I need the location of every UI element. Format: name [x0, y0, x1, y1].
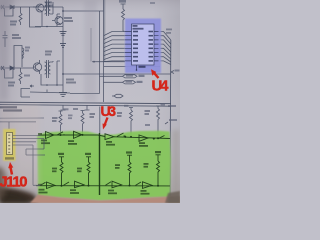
fan of wires to U4 left pins [104, 32, 125, 62]
row1 wire [38, 135, 170, 139]
triangle U3E [47, 182, 56, 189]
junction dots row1 [60, 134, 62, 136]
red arrow U3 [105, 118, 108, 125]
paper background [0, 0, 180, 203]
triangle U3C [105, 134, 114, 140]
purple highlight U4 [125, 19, 161, 74]
text mid right [45, 51, 52, 53]
diode D2 [10, 66, 14, 70]
switch [106, 182, 112, 185]
double horizontal lines [0, 102, 171, 103]
net oval 3 [112, 95, 114, 97]
right border vertical [169, 40, 172, 196]
bus through green [99, 133, 101, 195]
wire mid [35, 14, 63, 27]
box x14-22 [14, 46, 22, 68]
transistor Q3 [55, 17, 63, 25]
U4 pins and interior marks [125, 32, 159, 71]
wire y66.5 [104, 66, 160, 68]
cap C at x5 [3, 31, 8, 47]
stubs into green [61, 107, 159, 139]
top rail [0, 6, 63, 8]
triangle U3F [75, 181, 85, 187]
net oval 1 [123, 75, 138, 78]
junction dots row2 [61, 185, 63, 187]
transformer T1 [47, 0, 49, 16]
net label wires below U4 [100, 76, 123, 82]
row1 col4 [156, 106, 160, 109]
switch 1 [57, 132, 65, 135]
triangle U3D [139, 135, 148, 141]
text R6x [12, 34, 19, 36]
green highlight region U3 [37, 131, 171, 201]
row2 switch 1 [40, 182, 46, 185]
Q6 label [66, 79, 74, 81]
long wire y74 [63, 73, 171, 75]
switch 2 [117, 133, 126, 137]
switch 3 [158, 136, 165, 139]
green text labels [38, 133, 161, 195]
svg-text:U3: U3 [101, 103, 117, 119]
resistor R48 [19, 7, 22, 25]
warm tint lower-left paper [0, 104, 40, 188]
red arrow J110 [11, 168, 13, 175]
R texts row2 [52, 168, 57, 170]
green interior linework [36, 131, 170, 195]
row1 col2 [81, 111, 85, 114]
triangle U3B [74, 131, 83, 138]
wire y61.5 [92, 61, 125, 63]
row2 +5V col3 [127, 155, 132, 162]
U4 IC body [132, 24, 155, 65]
switch [64, 182, 70, 185]
small label left edge [38, 133, 42, 135]
triangle U3A [46, 132, 55, 139]
vertical line x63 [62, 7, 64, 92]
hanging stubs [61, 106, 90, 111]
transistor Q2 [33, 63, 41, 71]
note text rows [0, 106, 17, 108]
diode D1 [10, 5, 14, 9]
wire above connector [0, 121, 36, 123]
loop box B [5, 69, 14, 78]
value text R48 [10, 21, 17, 23]
row2 +5V col4 [156, 155, 161, 161]
triangle U3H [143, 182, 153, 189]
row2 +5V col1 [59, 157, 64, 162]
svg-text:J110: J110 [0, 175, 28, 191]
vertical buses [70, 11, 100, 94]
transistor Q1 [36, 4, 44, 12]
coil on box [22, 48, 24, 59]
lower rail stage B [0, 67, 33, 69]
row2 wire [36, 185, 170, 187]
rail to bus [63, 10, 104, 12]
Q1 label [45, 2, 52, 4]
resistor R5x [19, 68, 22, 84]
box upper mid [21, 89, 70, 98]
bottom-left dark corner [0, 188, 37, 204]
wires from J110 (over grey) [13, 136, 46, 186]
J110 connector body [7, 133, 13, 155]
faint line left lower [0, 117, 44, 119]
right fan from U4 [159, 32, 171, 65]
row2 +5V col2 [86, 157, 91, 162]
switch [136, 182, 142, 185]
small ground B [60, 44, 66, 48]
bottom-right dark wedge [165, 191, 180, 203]
yellow highlight J110 [3, 129, 15, 161]
transformer T2 [47, 60, 49, 78]
svg-text:U4: U4 [152, 78, 170, 95]
right small labels [171, 71, 174, 74]
vignette corners [0, 0, 8, 100]
arrow mark left [30, 85, 34, 87]
vertical shadow band [84, 0, 97, 102]
wire [30, 7, 42, 27]
bottom right grey-brown [168, 196, 180, 203]
row1 +5V and resistors col1 [59, 111, 63, 114]
row1 col3 [129, 108, 133, 111]
component blob left [1, 5, 4, 9]
small ground A [60, 32, 67, 36]
triangle U3G [112, 181, 122, 188]
bottom pink strip [30, 195, 180, 204]
loop box under rail [5, 8, 14, 16]
+5V texts row2 [58, 153, 64, 155]
ground at x63 bottom [59, 93, 67, 97]
schematic linework (grey paper area) [0, 0, 180, 196]
net oval 2 [123, 81, 136, 84]
red arrow U4 [155, 74, 159, 79]
resistor R73 [122, 9, 126, 32]
+5V at top [119, 0, 126, 3]
